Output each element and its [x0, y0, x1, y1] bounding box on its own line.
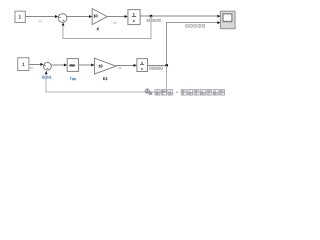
annotation text (top, 4 CJK chars) — [147, 19, 161, 22]
integrator block 1/s (top) — [128, 10, 140, 25]
trigonometric block Tan "atan" — [67, 59, 78, 72]
feedback wire (bottom loop) — [45, 65, 167, 92]
label ud (top, after Constant1) — [39, 20, 42, 22]
label Tan (blue) — [70, 77, 76, 80]
junction node (bottom) — [165, 64, 168, 67]
scope block Scope — [220, 11, 235, 29]
gain block K1 triangle "10" (bottom) — [95, 58, 117, 74]
watermark separator dot — [176, 92, 177, 93]
wire Tan to Gain K1 — [79, 64, 95, 67]
sum junction Sum (top) — [58, 14, 67, 23]
wire Sum1 to Tan (bottom) — [52, 64, 68, 67]
watermark logo (chat bubbles) — [145, 88, 153, 95]
wire from Constant1 to Sum1 (top) — [25, 15, 58, 18]
annotation text (bottom, 5 CJK chars) — [149, 67, 162, 69]
wire Integrator to Scope input 1 (top) — [140, 15, 221, 18]
wire from Constant to Sum (bottom) — [29, 63, 44, 66]
watermark text (CJK footer) — [155, 90, 225, 96]
wire Gain K to Integrator (top) — [107, 15, 128, 18]
junction node (top) — [150, 15, 153, 18]
label ud (bottom, after Constant) — [30, 67, 33, 69]
label ud (bottom, before Integrator1) — [118, 67, 121, 69]
wire Integrator1 to junction (bottom) — [148, 64, 167, 66]
label ud (top, before Integrator) — [113, 22, 116, 24]
constant block Constant1 "1" (top) — [15, 11, 25, 22]
wire Gain K1 to Integrator1 (bottom) — [116, 64, 137, 67]
integrator block 1/s Integrator1 (bottom) — [137, 59, 148, 72]
constant block Constant "1" (bottom) — [18, 58, 29, 71]
label K — [97, 28, 99, 31]
sum junction Sum1 (bottom) — [44, 62, 52, 70]
label Sum1 (blue) — [42, 76, 52, 79]
annotation text (scope input 2, 5 CJK chars) — [186, 25, 205, 28]
wire Sum to Gain K (top) — [67, 15, 92, 18]
wire from bottom junction up to Scope input 2 — [167, 21, 221, 65]
feedback wire (top loop) — [62, 16, 151, 38]
gain block K triangle "10" (top) — [92, 9, 107, 25]
label K1 — [103, 77, 107, 80]
